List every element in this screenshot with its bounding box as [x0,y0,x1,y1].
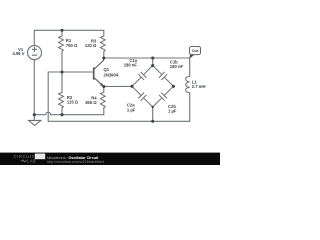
svg-text:180 nF: 180 nF [124,62,138,67]
svg-text:4.96 V: 4.96 V [12,51,24,56]
svg-text:http://circuitlab.com/c/22bfab: http://circuitlab.com/c/22bfabd9bb4 [47,160,104,164]
svg-text:2.7 mH: 2.7 mH [192,84,206,89]
junction bottom rail / bridge stem [151,120,154,123]
capacitor C1a [132,66,153,87]
footer logo icon block [35,154,45,160]
wire emitter to bridge [104,85,132,87]
svg-text:790 Ω: 790 Ω [66,43,78,48]
node bridge bottom [152,106,154,108]
junction top rail / R1 [60,29,63,32]
wire base horizontal [48,71,93,73]
resistor R4 [100,92,105,108]
capacitor C2b [153,86,174,107]
svg-text:115 Ω: 115 Ω [67,100,79,105]
wire R1 leads [61,30,63,36]
transistor Q1 [94,58,104,86]
wire collector rail [104,57,190,59]
node bridge right [172,85,175,88]
capacitor C1b [153,66,174,87]
resistor R3 [100,36,105,52]
wire right branch leads [189,58,191,76]
node bridge left [130,85,133,88]
footer logo LAB [21,160,27,162]
node bridge top [151,64,154,67]
svg-text:LAB: LAB [27,159,36,164]
wire bridge bottom stem [152,107,154,121]
junction collector node [102,56,105,59]
wire top rail [34,30,104,45]
junction V1 / ground [33,113,36,116]
svg-text:180 nF: 180 nF [170,64,184,69]
resistor R2 [59,93,64,109]
wire bridge top stem [152,58,154,66]
svg-text:Q1: Q1 [104,67,110,72]
wire R4 leads [103,87,105,93]
ground [29,115,41,126]
out flag [189,54,194,58]
svg-text:1 µF: 1 µF [127,107,136,112]
wire ground rail [34,112,104,114]
junction emitter node [102,85,105,88]
junction ground rail / R2 [60,113,63,116]
voltage source V1 [28,46,42,60]
svg-text:2N3904: 2N3904 [104,73,119,78]
svg-text:Out: Out [192,48,199,53]
wire base net vertical [47,72,49,121]
resistor R1 [59,36,64,52]
wire R3 bottom lead [103,52,105,59]
wire bottom rail [48,120,190,122]
junction base node / R1 R2 [60,70,63,73]
svg-text:120 Ω: 120 Ω [85,43,97,48]
capacitor C2a [132,86,153,107]
svg-text:366 Ω: 366 Ω [85,100,97,105]
footer watermark bar [0,153,220,165]
wire R2 leads [61,72,63,93]
inductor L1 [186,76,190,92]
wire V1 bottom lead [33,60,35,115]
junction collector rail / bridge stem [151,56,154,59]
svg-text:1 µF: 1 µF [168,108,177,113]
